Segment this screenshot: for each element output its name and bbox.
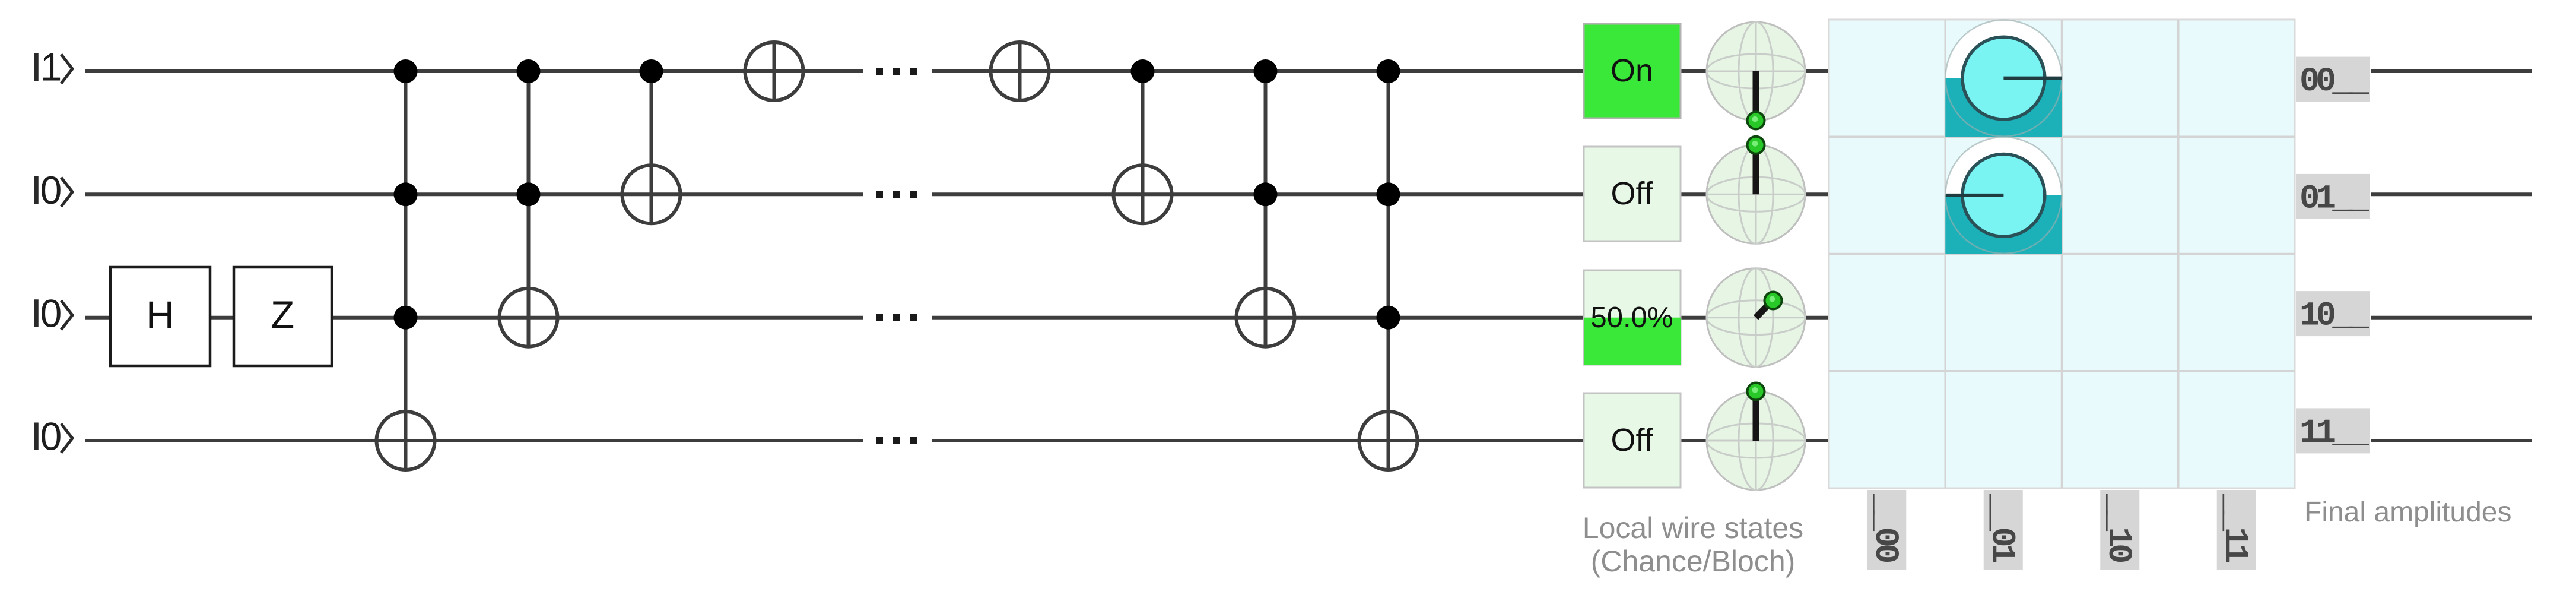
column 1 CNOT target wire 4 [377, 412, 435, 470]
chance display On wire 1 [1584, 24, 1681, 118]
output row label 11__ [2296, 408, 2370, 453]
ellipsis wire 2 [876, 191, 917, 198]
column 2 control dot wire 2 [517, 182, 541, 206]
svg-text:0: 0 [40, 168, 62, 212]
svg-text:Local wire states: Local wire states [1583, 511, 1803, 545]
column 3 control dot wire 1 [640, 59, 663, 83]
output wire stub row 01 [2371, 192, 2532, 196]
svg-text:10__: 10__ [2299, 298, 2369, 336]
column 4 CNOT target wire 1 [745, 42, 803, 100]
column label __00 [1866, 490, 1907, 570]
svg-text:(Chance/Bloch): (Chance/Bloch) [1591, 545, 1796, 578]
gate Z wire 3 [234, 267, 332, 366]
amplitude cell row 00 col 01 [1945, 20, 2062, 137]
svg-text:00__: 00__ [2299, 63, 2369, 101]
svg-text:Off: Off [1611, 422, 1653, 458]
output wire stub row 11 [2371, 439, 2532, 442]
chance display 50.0% wire 3 [1584, 270, 1681, 365]
svg-text:H: H [146, 293, 174, 337]
column 3 vertical connector [650, 71, 653, 223]
svg-text:On: On [1611, 53, 1653, 88]
wire 1 segments [85, 69, 1829, 73]
svg-text:Z: Z [271, 293, 294, 337]
Bloch sphere wire 2 [1707, 137, 1805, 243]
svg-text:0: 0 [40, 291, 62, 335]
Bloch sphere wire 3 [1707, 268, 1805, 367]
column 1 vertical connector [404, 71, 408, 470]
ket label |0> wire 4 [36, 415, 72, 458]
ellipsis wire 3 [876, 314, 917, 321]
wire 2 segments [85, 192, 1829, 196]
column 2 vertical connector [527, 71, 531, 347]
column 1 control dot wire 2 [394, 182, 418, 206]
svg-text:50.0%: 50.0% [1591, 302, 1673, 334]
amplitude grid background [1829, 20, 2295, 488]
column 1 control dot wire 1 [394, 59, 418, 83]
column 7 control dot wire 2 [1254, 182, 1278, 206]
output wire stub row 10 [2371, 316, 2532, 320]
ellipsis wire 1 [876, 68, 917, 75]
svg-text:1: 1 [40, 45, 62, 89]
column label __10 [2099, 490, 2140, 570]
svg-text:__11: __11 [2215, 494, 2253, 562]
output row label 10__ [2296, 291, 2370, 336]
wire 3 segments [85, 316, 1829, 320]
chance display Off wire 2 [1584, 147, 1681, 241]
Bloch sphere wire 4 [1707, 383, 1805, 491]
ket label |1> wire 1 [36, 45, 72, 89]
ket label |0> wire 2 [36, 168, 72, 212]
ellipsis wire 4 [876, 437, 917, 444]
column 2 control dot wire 1 [517, 59, 541, 83]
column 6 CNOT target wire 2 [1114, 165, 1172, 223]
column 7 vertical connector [1264, 71, 1268, 347]
column 8 control dot wire 1 [1377, 59, 1400, 83]
svg-text:__10: __10 [2099, 494, 2137, 562]
column 2 CNOT target wire 3 [500, 289, 558, 347]
svg-text:11__: 11__ [2299, 415, 2369, 453]
wire 4 segments [85, 439, 1829, 442]
column 8 CNOT target wire 4 [1360, 412, 1418, 470]
column 6 control dot wire 1 [1131, 59, 1155, 83]
column label __01 [1982, 490, 2023, 570]
chance display Off wire 4 [1584, 393, 1681, 488]
column 7 CNOT target wire 3 [1237, 289, 1295, 347]
gate H wire 3 [110, 267, 210, 366]
Bloch sphere wire 1 [1707, 22, 1805, 129]
svg-text:Final amplitudes: Final amplitudes [2304, 496, 2512, 528]
svg-text:01__: 01__ [2299, 180, 2369, 218]
column 1 control dot wire 3 [394, 306, 418, 330]
output row label 00__ [2296, 57, 2370, 102]
output wire stub row 00 [2371, 69, 2532, 73]
svg-text:0: 0 [40, 415, 62, 458]
column 7 control dot wire 1 [1254, 59, 1278, 83]
column 8 control dot wire 2 [1377, 182, 1400, 206]
svg-text:__01: __01 [1982, 494, 2020, 562]
ket label |0> wire 3 [36, 291, 72, 335]
column 8 control dot wire 3 [1377, 306, 1400, 330]
column 6 vertical connector [1141, 71, 1145, 223]
amplitude cell row 01 col 01 [1945, 137, 2062, 254]
output row label 01__ [2296, 174, 2370, 219]
svg-text:__00: __00 [1866, 494, 1904, 562]
column 8 vertical connector [1387, 71, 1390, 470]
column 5 CNOT target wire 1 [991, 42, 1049, 100]
svg-text:Off: Off [1611, 176, 1653, 211]
column 3 CNOT target wire 2 [622, 165, 681, 223]
column label __11 [2215, 490, 2256, 570]
